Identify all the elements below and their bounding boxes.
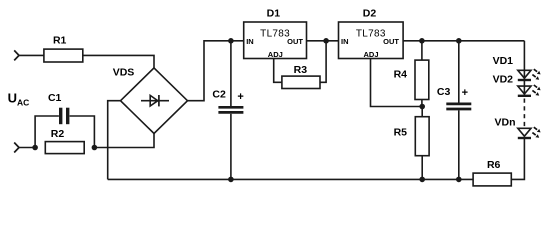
wire R3 right up to OUT junction [320,41,326,83]
junction C2 bottom [228,177,234,183]
svg-text:C3: C3 [437,86,451,98]
capacitor C1 [35,92,94,148]
svg-text:D2: D2 [363,8,377,20]
svg-text:R1: R1 [53,35,67,47]
VD2 arrows [534,85,541,90]
svg-text:TL783: TL783 [356,29,386,40]
wire bridge right corner to top rail [188,41,244,101]
svg-text:VDS: VDS [113,67,135,79]
resistor R5 [394,107,430,180]
svg-text:VDn: VDn [495,116,516,128]
wire node to bottom terminal [18,147,35,149]
junction C3 bottom / R6 [456,177,462,183]
svg-text:VD1: VD1 [493,55,514,67]
regulator D1 [244,8,307,59]
svg-text:R5: R5 [394,127,408,139]
resistor R3 [282,64,320,89]
diode inside bridge [141,95,169,106]
node right of C1/R2 [92,145,98,151]
svg-text:C2: C2 [212,89,226,101]
bottom rail [108,178,473,180]
svg-text:+: + [462,87,468,99]
label U_AC [8,91,30,108]
wire bridge left corner down to bottom rail [108,101,121,180]
junction D1 OUT [323,38,329,44]
VD1 arrows [534,69,541,74]
wire terminal to R1 [18,54,44,56]
svg-text:U: U [8,91,17,106]
LED VDn [495,116,532,138]
input terminal bottom [14,143,19,153]
wire R6 right up to LED chain [511,139,524,180]
svg-text:ADJ: ADJ [363,50,378,59]
LED column wire upper [523,41,525,97]
svg-text:R2: R2 [51,128,65,140]
junction R4/R5/ADJ [419,104,425,110]
svg-text:IN: IN [341,37,349,46]
resistor R1 [44,35,83,62]
junction R5 bottom [419,177,425,183]
svg-text:OUT: OUT [287,37,303,46]
dashed wire (more LEDs) [523,99,525,129]
svg-text:R4: R4 [394,68,408,80]
svg-text:D1: D1 [267,8,281,20]
wire D2 OUT to LED column [403,40,524,42]
wire D2 ADJ down to R4/R5 node [371,59,423,107]
svg-text:C1: C1 [48,92,62,104]
node left of C1/R2 [32,145,38,151]
svg-text:R6: R6 [487,159,501,171]
regulator D2 [339,8,404,59]
wire bridge bottom corner to input row [94,134,154,148]
svg-text:+: + [237,91,243,103]
svg-text:OUT: OUT [383,37,399,46]
LED VD2 [493,74,531,96]
wire D1 OUT to D2 IN [307,40,339,42]
capacitor C2 [212,41,243,180]
resistor R6 [473,159,511,186]
junction C3 top [456,38,462,44]
svg-text:R3: R3 [294,64,308,76]
LED VD1 [493,55,531,80]
bridge rectifier VDS [113,67,188,134]
svg-text:ADJ: ADJ [268,50,283,59]
wire D1 ADJ down [274,59,282,83]
junction D2 OUT / R4 [419,38,425,44]
svg-text:VD2: VD2 [493,74,514,86]
junction C2 top [228,38,234,44]
VDn arrows [534,127,541,132]
svg-text:AC: AC [17,97,29,107]
svg-text:TL783: TL783 [260,29,290,40]
wire R1 to bridge top corner [83,55,154,68]
resistor R4 [394,41,429,107]
input terminal top [14,50,19,60]
capacitor C3 [437,41,471,180]
svg-text:IN: IN [246,37,254,46]
resistor R2 [45,128,84,154]
